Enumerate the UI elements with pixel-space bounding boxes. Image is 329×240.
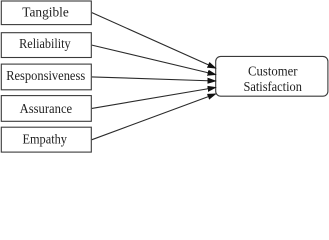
- arrow Empathy -> Customer Satisfaction: [92, 94, 215, 140]
- box Reliability: [1, 33, 91, 58]
- box Empathy: [1, 127, 91, 152]
- arrow Tangible -> Customer Satisfaction: [92, 13, 215, 68]
- svg-text:Empathy: Empathy: [22, 131, 67, 146]
- svg-text:Assurance: Assurance: [20, 101, 73, 116]
- box Tangible: [1, 1, 91, 25]
- arrow Reliability -> Customer Satisfaction: [92, 45, 215, 74]
- arrow Responsiveness -> Customer Satisfaction: [92, 77, 215, 81]
- arrow Assurance -> Customer Satisfaction: [92, 88, 215, 109]
- svg-text:Responsiveness: Responsiveness: [6, 68, 85, 83]
- svg-text:Satisfaction: Satisfaction: [243, 79, 302, 94]
- svg-text:Customer: Customer: [248, 64, 298, 79]
- svg-text:Tangible: Tangible: [22, 5, 69, 20]
- box Assurance: [1, 96, 91, 122]
- svg-text:Reliability: Reliability: [19, 36, 71, 51]
- box Responsiveness: [1, 64, 91, 90]
- rounded box Customer Satisfaction: [216, 56, 328, 96]
